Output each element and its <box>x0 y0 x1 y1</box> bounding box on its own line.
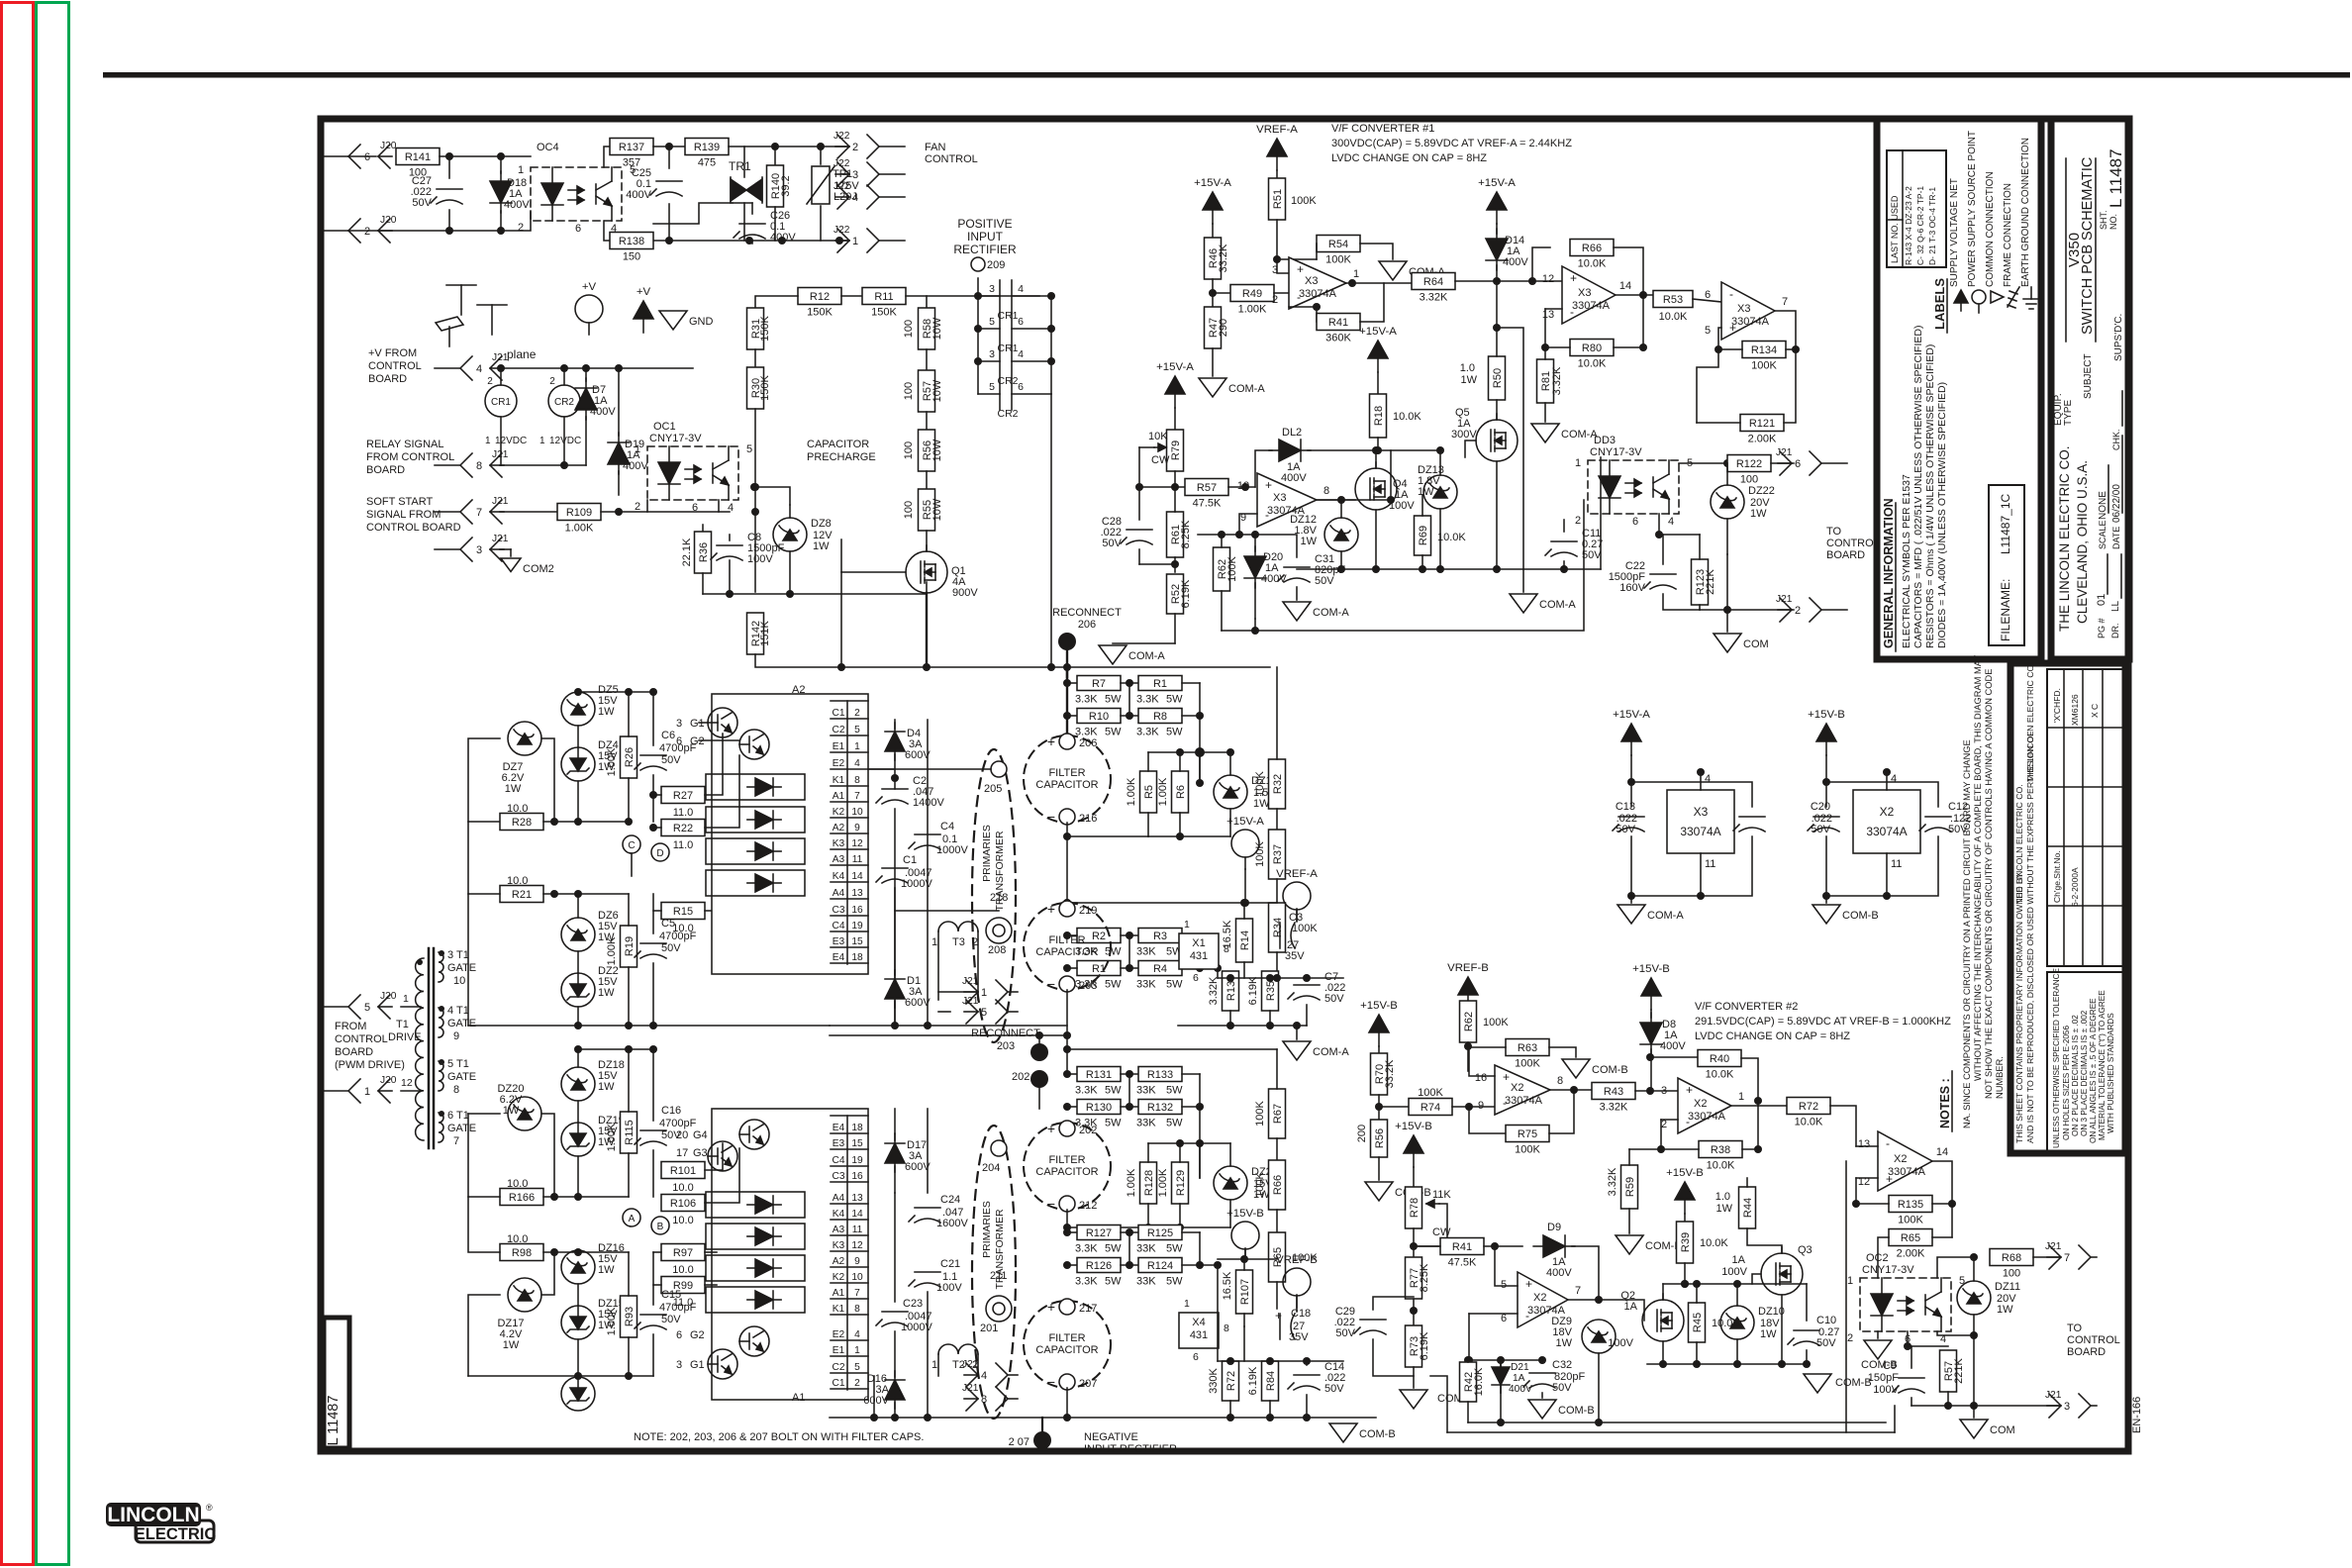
svg-text:J21: J21 <box>962 996 979 1007</box>
resistor column R67 <box>1269 1089 1286 1138</box>
resistor R142 <box>754 512 756 592</box>
diode D20 <box>1254 535 1256 551</box>
svg-text:100K: 100K <box>1898 1215 1923 1226</box>
+15V-B supply to X2 <box>1816 724 1836 741</box>
svg-text:CR2: CR2 <box>997 375 1018 387</box>
resistor R11 <box>862 288 906 305</box>
svg-text:47.5K: 47.5K <box>1448 1257 1477 1269</box>
svg-text:211: 211 <box>990 1270 1008 1282</box>
resistor bank R4 <box>1138 961 1182 976</box>
svg-text:50V: 50V <box>661 1314 681 1325</box>
module A2 pin C1/2 <box>831 718 868 720</box>
svg-text:4700pF: 4700pF <box>659 1118 697 1129</box>
resistor R77 <box>1406 1257 1422 1299</box>
svg-text:3.3K: 3.3K <box>1075 1085 1098 1097</box>
svg-text:209: 209 <box>987 259 1005 271</box>
svg-text:X1: X1 <box>1192 937 1205 949</box>
svg-text:SUPS'D'C.: SUPS'D'C. <box>2113 314 2124 361</box>
resistor R28 <box>500 814 543 831</box>
svg-text:2.00K: 2.00K <box>1897 1248 1925 1260</box>
svg-text:18: 18 <box>851 952 863 963</box>
svg-text:8: 8 <box>1557 1075 1563 1087</box>
wire Q5 gate <box>1465 441 1476 457</box>
ground COM-B under C32 <box>1528 1400 1556 1419</box>
resistor R141 <box>396 148 440 165</box>
svg-text:R122: R122 <box>1736 458 1762 470</box>
svg-text:R65: R65 <box>1901 1232 1920 1244</box>
svg-text:11K: 11K <box>1432 1189 1451 1201</box>
svg-text:THE LINCOLN ELECTRIC CO.: THE LINCOLN ELECTRIC CO. <box>2057 445 2072 632</box>
svg-text:06/22/00: 06/22/00 <box>2111 484 2122 523</box>
module A2 pin E1/1 <box>831 751 868 753</box>
capacitor C2 <box>882 788 908 790</box>
wire OC2 pin5 to R68 rail <box>1937 1257 1970 1278</box>
connector J22 pin 1 <box>879 240 905 242</box>
wire +V rail <box>500 367 693 369</box>
connector J21 pin 7 <box>435 511 460 513</box>
svg-text:19: 19 <box>851 1155 863 1166</box>
ground COM-B bmid <box>1804 1374 1831 1393</box>
module A1 pin K4/14 <box>831 1219 868 1221</box>
wire to opto OC1 <box>618 368 620 436</box>
svg-text:6: 6 <box>1795 458 1801 470</box>
bottom bus vf2b <box>1468 1421 1886 1423</box>
svg-text:33K: 33K <box>1136 946 1156 958</box>
T1 winding gate8 <box>439 1061 443 1091</box>
resistor R107b 16.5K wire <box>1243 1326 1245 1361</box>
svg-text:L 11487: L 11487 <box>2107 148 2125 208</box>
svg-text:4700pF: 4700pF <box>659 742 697 754</box>
svg-text:10: 10 <box>453 975 465 987</box>
svg-text:9: 9 <box>854 823 860 833</box>
svg-text:V/F CONVERTER #2: V/F CONVERTER #2 <box>1695 1001 1798 1013</box>
zener DZ1 <box>1214 775 1247 809</box>
svg-text:5W: 5W <box>1105 694 1122 706</box>
svg-text:33074A: 33074A <box>1866 825 1907 838</box>
svg-text:COM-B: COM-B <box>1835 1377 1872 1389</box>
svg-text:CAPACITOR: CAPACITOR <box>1035 1166 1098 1178</box>
svg-text:J21: J21 <box>492 449 509 460</box>
VREF-A supply arrow <box>1267 139 1287 156</box>
svg-text:COM-B: COM-B <box>1558 1405 1595 1417</box>
capacitor C20 <box>1813 816 1839 818</box>
capacitor C11 <box>1551 540 1577 542</box>
svg-text:300V: 300V <box>1451 429 1477 441</box>
svg-text:2: 2 <box>852 142 858 153</box>
optocoupler OC4 <box>531 167 622 221</box>
svg-text:8: 8 <box>1224 1323 1229 1334</box>
svg-text:+15V-B: +15V-B <box>1808 709 1845 721</box>
ground COM-A below R47 <box>1199 378 1226 397</box>
svg-text:4: 4 <box>1018 283 1024 295</box>
wire pin16 riser <box>1469 1046 1495 1076</box>
svg-text:150K: 150K <box>759 315 771 341</box>
svg-text:C16: C16 <box>661 1105 681 1117</box>
svg-text:R126: R126 <box>1086 1260 1112 1272</box>
resistor R126 <box>1067 1264 1077 1266</box>
svg-text:1W: 1W <box>505 783 522 795</box>
svg-text:D21: D21 <box>1511 1362 1529 1373</box>
wire vrefb rail <box>1217 1265 1219 1361</box>
svg-text:2: 2 <box>1575 515 1581 527</box>
svg-text:5: 5 <box>989 381 995 393</box>
wire DZ17 frame <box>468 1295 500 1376</box>
resistor R97 <box>661 1244 705 1261</box>
svg-text:1: 1 <box>1184 1298 1190 1310</box>
svg-text:Ch'ge.Sht.No.: Ch'ge.Sht.No. <box>2052 850 2062 903</box>
wire cluster top <box>578 691 653 693</box>
svg-text:WITH PUBLISHED STANDARDS: WITH PUBLISHED STANDARDS <box>2107 1013 2115 1133</box>
svg-text:J21: J21 <box>492 496 509 507</box>
module A2 pin C2/5 <box>831 735 868 736</box>
svg-text:400V: 400V <box>1546 1267 1572 1279</box>
connector J21 pin 4 <box>1008 1374 1018 1376</box>
svg-text:1W: 1W <box>1556 1337 1573 1349</box>
resistor column R65 <box>1269 1232 1286 1282</box>
resistor R55 <box>919 489 935 531</box>
connector J21 pin 8 <box>435 464 460 466</box>
capacitor C22 <box>1650 573 1676 575</box>
svg-text:2: 2 <box>854 708 860 719</box>
wire X3b pin13 <box>1545 308 1562 310</box>
resistor R57 <box>919 370 935 412</box>
svg-text:50V: 50V <box>1102 538 1122 549</box>
svg-text:C4: C4 <box>832 1155 844 1166</box>
connector J22 pin 3 <box>879 173 905 175</box>
wire lower module bus <box>894 1193 896 1302</box>
filename box <box>1989 485 2024 645</box>
svg-text:ON ALL ANGLES IS ± .5 OF A DEG: ON ALL ANGLES IS ± .5 OF A DEGREE <box>2089 998 2098 1143</box>
svg-text:FAN: FAN <box>925 142 945 153</box>
resistor R6 <box>1172 771 1189 813</box>
svg-text:+: + <box>1047 734 1055 749</box>
capacitor C26 <box>739 223 765 225</box>
svg-text:J22: J22 <box>833 158 850 169</box>
svg-text:K2: K2 <box>833 1272 845 1283</box>
ground COM-A bottom <box>1296 1026 1298 1039</box>
svg-text:L 11487: L 11487 <box>326 1396 342 1446</box>
chassis stub 1 <box>446 284 476 286</box>
wire X3d out <box>1317 499 1355 501</box>
svg-text:3: 3 <box>1272 264 1278 276</box>
mosfet Q1 <box>906 551 947 593</box>
connector J21 pin 2 <box>1821 609 1847 611</box>
svg-text:7: 7 <box>1782 296 1788 308</box>
capacitor C16 <box>640 1129 666 1131</box>
svg-text:R98: R98 <box>512 1247 532 1259</box>
svg-text:5: 5 <box>981 1007 987 1019</box>
svg-text:R133: R133 <box>1147 1069 1173 1081</box>
svg-text:7: 7 <box>854 791 860 802</box>
svg-text:208: 208 <box>988 944 1006 956</box>
wire +15V-A to R14 column <box>1368 341 1388 358</box>
svg-text:10.0: 10.0 <box>507 803 528 815</box>
svg-text:1W: 1W <box>1760 1328 1777 1340</box>
svg-text:1400V: 1400V <box>913 797 944 809</box>
svg-text:R93: R93 <box>624 1307 636 1326</box>
svg-text:33.2K: 33.2K <box>1384 1059 1396 1088</box>
svg-text:®: ® <box>206 1503 213 1513</box>
resistor R125 <box>1138 1225 1182 1240</box>
svg-text:6: 6 <box>1501 1313 1507 1324</box>
svg-text:3: 3 <box>1661 1085 1667 1097</box>
svg-text:6: 6 <box>1193 1351 1199 1363</box>
svg-text:VREF-B: VREF-B <box>1276 1254 1318 1266</box>
svg-text:R54: R54 <box>1328 239 1348 250</box>
svg-text:R41: R41 <box>1452 1241 1472 1253</box>
resistor R128 <box>1140 1162 1157 1204</box>
svg-text:100V: 100V <box>1873 1384 1899 1396</box>
svg-text:400V: 400V <box>623 460 648 472</box>
zener DZ8 <box>773 518 807 551</box>
wire bottom bus <box>830 1025 1067 1027</box>
svg-text:35V: 35V <box>1285 950 1305 962</box>
resistor R50 1.0 1W <box>1489 356 1506 400</box>
svg-text:10: 10 <box>851 1272 863 1283</box>
svg-text:1600V: 1600V <box>936 1218 968 1229</box>
resistor R15 <box>661 903 705 920</box>
svg-text:SIGNAL FROM: SIGNAL FROM <box>366 509 441 521</box>
svg-text:CR2: CR2 <box>554 397 574 408</box>
wire R12 left to R31 <box>755 296 798 308</box>
T1 winding gate9 <box>439 1008 443 1037</box>
zener DZ12 <box>1324 518 1358 551</box>
resistor R58 <box>926 296 928 308</box>
resistor bank R2 <box>1067 902 1077 904</box>
connector J21 pin 3 <box>435 548 460 550</box>
svg-text:R41: R41 <box>1328 317 1348 329</box>
resistor R135 <box>1889 1196 1932 1213</box>
svg-text:J20: J20 <box>380 141 397 151</box>
svg-text:X2: X2 <box>1894 1153 1907 1165</box>
capacitor C28 <box>1127 529 1152 531</box>
svg-text:C2: C2 <box>832 725 844 735</box>
svg-text:NONE: NONE <box>2098 491 2108 520</box>
svg-text:50V: 50V <box>412 197 432 209</box>
svg-text:100K: 100K <box>1254 840 1266 866</box>
svg-text:1: 1 <box>931 1359 937 1371</box>
svg-text:5W: 5W <box>1166 694 1183 706</box>
svg-text:K3: K3 <box>833 838 845 849</box>
wire DZ7 frame <box>468 738 500 822</box>
svg-text:C1: C1 <box>903 854 917 866</box>
svg-text:UNLESS OTHERWISE SPECIFIED TOL: UNLESS OTHERWISE SPECIFIED TOLERANCE <box>2052 967 2061 1148</box>
svg-text:9: 9 <box>453 1030 459 1042</box>
diode D19 <box>608 433 630 474</box>
svg-text:R5: R5 <box>1143 785 1155 799</box>
connector J20 pin 2 <box>323 230 348 232</box>
svg-text:6: 6 <box>1705 289 1711 301</box>
svg-text:431: 431 <box>1190 950 1208 962</box>
resistor R53 <box>1653 291 1693 308</box>
svg-text:6.19K: 6.19K <box>1247 976 1259 1005</box>
svg-text:2: 2 <box>364 226 370 238</box>
resistor R62 <box>1214 547 1230 591</box>
wire 218 to T3 <box>895 910 999 912</box>
svg-text:10W: 10W <box>931 498 943 521</box>
svg-text:R4: R4 <box>1153 963 1167 975</box>
connector J22 pin 2 fan <box>879 146 905 147</box>
node 209 <box>971 257 985 271</box>
svg-text:−: − <box>1047 1374 1055 1390</box>
svg-text:R-143 X-4 DZ-23 A-2: R-143 X-4 DZ-23 A-2 <box>1904 186 1913 265</box>
svg-text:DR.: DR. <box>2110 624 2120 639</box>
resistor R63 <box>1506 1039 1549 1056</box>
svg-text:33K: 33K <box>1136 1118 1156 1129</box>
svg-text:7: 7 <box>2064 1252 2070 1264</box>
wire R5R6 top <box>1148 751 1200 753</box>
svg-text:50V: 50V <box>1335 1327 1355 1339</box>
svg-text:5: 5 <box>854 725 860 735</box>
diode D4 <box>894 720 896 729</box>
resistor R166 <box>500 1189 543 1206</box>
svg-text:221K: 221K <box>1953 1357 1965 1383</box>
svg-text:FILENAME:: FILENAME: <box>1999 579 2012 641</box>
svg-text:100: 100 <box>903 441 915 459</box>
svg-text:3.3K: 3.3K <box>1075 1243 1098 1255</box>
svg-text:G1: G1 <box>690 1359 705 1371</box>
resistor R129 <box>1172 1162 1189 1204</box>
svg-text:1W: 1W <box>1750 508 1767 520</box>
svg-text:K3: K3 <box>833 1240 845 1251</box>
wire R51 junction to op-amp <box>1273 255 1281 263</box>
svg-text:16: 16 <box>851 905 863 916</box>
diode D7 <box>585 368 587 381</box>
relay CR2 <box>563 368 565 385</box>
svg-text:R44: R44 <box>1742 1198 1754 1218</box>
svg-text:CNY17-3V: CNY17-3V <box>649 433 702 444</box>
svg-text:431: 431 <box>1190 1329 1208 1341</box>
svg-text:150: 150 <box>623 251 640 263</box>
svg-text:R26: R26 <box>624 747 636 767</box>
module A1 pin A1/7 <box>831 1298 868 1300</box>
capacitor C8 <box>717 544 742 546</box>
svg-text:+15V-B: +15V-B <box>1360 1000 1398 1012</box>
optocoupler OC2 <box>1860 1278 1951 1331</box>
svg-text:1W: 1W <box>1418 486 1434 498</box>
resistor R93 <box>621 1296 637 1337</box>
svg-text:J22: J22 <box>833 225 850 236</box>
svg-text:POSITIVE: POSITIVE <box>957 217 1012 231</box>
svg-text:218: 218 <box>990 892 1008 904</box>
module A1 pin A3/11 <box>831 1234 868 1236</box>
svg-text:NUMBER.: NUMBER. <box>1995 1056 2005 1099</box>
svg-text:100: 100 <box>903 320 915 338</box>
module A1 pin A4/13 <box>831 1203 868 1205</box>
module A1 pin A2/9 <box>831 1266 868 1268</box>
svg-text:OC4: OC4 <box>537 142 559 153</box>
svg-text:33K: 33K <box>1136 1085 1156 1097</box>
svg-text:COM: COM <box>1990 1424 2015 1436</box>
svg-text:3: 3 <box>989 348 995 360</box>
svg-text:4: 4 <box>981 1370 987 1382</box>
svg-text:RELAY SIGNAL: RELAY SIGNAL <box>366 439 443 450</box>
svg-text:+15V-B: +15V-B <box>1395 1121 1432 1132</box>
svg-text:6-2-2000A: 6-2-2000A <box>2070 867 2080 907</box>
module A2 pin A3/11 <box>831 864 868 866</box>
svg-text:GATE: GATE <box>447 962 476 974</box>
resistor R52 <box>1167 574 1184 614</box>
svg-text:1: 1 <box>852 236 858 247</box>
svg-text:+: + <box>1047 1299 1055 1315</box>
svg-text:X3: X3 <box>1694 805 1709 819</box>
svg-text:16.5K: 16.5K <box>1222 1271 1233 1300</box>
resistor R109 <box>500 511 557 513</box>
svg-text:+: + <box>1275 1309 1282 1323</box>
svg-text:+: + <box>1570 271 1577 285</box>
resistor R101 <box>661 1162 705 1179</box>
wire fb <box>1289 306 1317 308</box>
connector J20 pin 1 <box>323 1090 348 1092</box>
svg-text:151K: 151K <box>759 620 771 645</box>
svg-text:360K: 360K <box>1325 333 1351 344</box>
wire C29 top <box>1373 1297 1414 1310</box>
mosfet Q4 <box>1355 468 1397 510</box>
svg-text:10.0K: 10.0K <box>1795 1117 1823 1128</box>
svg-text:R34: R34 <box>1272 918 1284 937</box>
wire E2 rail to transformer <box>868 768 895 770</box>
wire VF1 lower bus <box>1222 500 1584 631</box>
resistor R72 <box>1758 1105 1787 1107</box>
svg-text:1: 1 <box>1738 1091 1744 1103</box>
wire X2a out <box>1550 1089 1592 1091</box>
wire 209 to rail <box>977 278 979 296</box>
resistor R121 <box>1697 349 1718 423</box>
+15V-B arrow left <box>1369 1015 1389 1032</box>
svg-text:J21: J21 <box>492 534 509 544</box>
svg-text:47.5K: 47.5K <box>1193 498 1222 510</box>
svg-text:J21: J21 <box>2045 1390 2062 1401</box>
svg-text:5W: 5W <box>1105 979 1122 991</box>
svg-text:1000V: 1000V <box>901 878 932 890</box>
svg-text:400V: 400V <box>1281 472 1307 484</box>
op-amp X2c <box>1878 1131 1932 1191</box>
svg-text:TYPE: TYPE <box>2063 400 2074 426</box>
op-amp X3d <box>1257 473 1317 527</box>
svg-text:RESISTORS = Ohms ( 1/4W UNLE: RESISTORS = Ohms ( 1/4W UNLESS OTHERWISE… <box>1924 344 1936 648</box>
svg-text:33.2K: 33.2K <box>1218 244 1229 272</box>
svg-text:ON 3 PLACE DECIMALS IS ± .002: ON 3 PLACE DECIMALS IS ± .002 <box>2080 1010 2089 1136</box>
IGBT Q a2-1 <box>708 708 737 737</box>
svg-text:2: 2 <box>854 1378 860 1389</box>
wire X3b out <box>1616 294 1655 296</box>
test node D <box>651 843 669 861</box>
wire pin5 riser <box>1495 1246 1518 1286</box>
svg-text:C4: C4 <box>832 921 844 931</box>
svg-text:2: 2 <box>1272 294 1278 306</box>
svg-text:6.19K: 6.19K <box>1180 579 1192 608</box>
resistor bank R1f <box>1138 676 1182 691</box>
svg-text:100: 100 <box>1740 474 1758 486</box>
resistor R39 <box>1684 1214 1686 1222</box>
svg-text:R56: R56 <box>1374 1128 1386 1148</box>
svg-text:C2: C2 <box>832 1362 844 1373</box>
svg-text:6: 6 <box>1018 316 1024 328</box>
svg-text:+15V-A: +15V-A <box>1226 816 1264 828</box>
svg-text:100K: 100K <box>1226 555 1238 581</box>
IGBT Q a2-2 <box>739 730 769 759</box>
svg-text:C13: C13 <box>1616 801 1635 813</box>
svg-text:DRIVE: DRIVE <box>388 1031 422 1043</box>
svg-text:1: 1 <box>1184 919 1190 931</box>
svg-text:A3: A3 <box>833 854 845 865</box>
svg-text:R10: R10 <box>1089 711 1109 723</box>
capacitor C1 <box>882 867 908 869</box>
svg-text:10W: 10W <box>931 439 943 461</box>
svg-text:4 T1: 4 T1 <box>447 1005 469 1017</box>
svg-text:+15V-A: +15V-A <box>1156 361 1194 373</box>
ground COM-A below R52 <box>1113 642 1175 644</box>
